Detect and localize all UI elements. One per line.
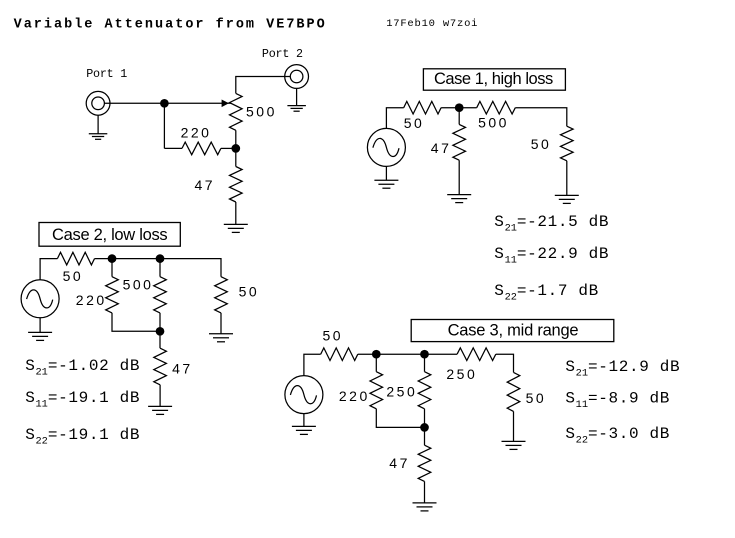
resistor 50 load (case 2) xyxy=(215,277,228,313)
wire node F to R47 xyxy=(159,331,161,348)
svg-text:50: 50 xyxy=(404,115,425,131)
resistor 220 (case 3) xyxy=(370,372,383,409)
ground (case 2 47) xyxy=(148,405,172,407)
resistor 220 (top-left) xyxy=(182,142,221,155)
wire node B to R47 xyxy=(235,148,237,166)
svg-text:220: 220 xyxy=(339,388,370,404)
svg-text:17Feb10 w7zoi: 17Feb10 w7zoi xyxy=(386,18,478,30)
source V3 (case 3) xyxy=(285,376,323,414)
wire R47 to ground (case 3) xyxy=(424,481,426,502)
svg-text:S11=-22.9 dB: S11=-22.9 dB xyxy=(494,245,609,267)
ground (case 3 source) xyxy=(292,425,316,427)
svg-text:50: 50 xyxy=(526,390,547,406)
wire load to ground xyxy=(566,161,568,196)
node F junction xyxy=(156,327,165,336)
ground (top-left 47) xyxy=(224,223,248,225)
resistor 220 (case 2) xyxy=(106,277,119,313)
wire R47 to ground xyxy=(235,202,237,224)
svg-text:50: 50 xyxy=(239,284,260,300)
svg-text:Port 2: Port 2 xyxy=(262,47,303,61)
svg-text:Case 3, mid range: Case 3, mid range xyxy=(448,322,579,340)
resistor 47 (case 3) xyxy=(418,445,431,481)
wire node C to R47 xyxy=(458,108,460,125)
case 1 label box xyxy=(423,69,565,90)
resistor 500 (case 2) xyxy=(154,277,167,313)
wire V2 bottom xyxy=(39,318,41,333)
wire to R220 xyxy=(164,147,182,149)
wire V1 top xyxy=(386,108,403,129)
wire node C to R500 xyxy=(459,107,477,109)
node C junction xyxy=(455,103,464,112)
wiper arrow wire xyxy=(164,102,230,104)
resistor 250 shunt (case 3) xyxy=(418,372,431,409)
svg-text:47: 47 xyxy=(431,140,452,156)
svg-text:S21=-1.02 dB: S21=-1.02 dB xyxy=(25,357,140,379)
wire V3 bottom xyxy=(303,414,305,427)
node H junction xyxy=(420,350,429,359)
resistor 50 series (case 1) xyxy=(404,101,441,114)
wire P1 to node A xyxy=(104,102,164,104)
svg-text:Variable Attenuator from VE7BP: Variable Attenuator from VE7BPO xyxy=(14,18,327,33)
ground (case 2 load) xyxy=(209,333,233,335)
node I junction xyxy=(420,423,429,432)
svg-text:50: 50 xyxy=(531,136,552,152)
source V1 (case 1) xyxy=(367,128,405,166)
wire V1 bottom xyxy=(385,166,387,180)
wire node G to node H xyxy=(376,353,424,355)
port P1 xyxy=(86,91,110,115)
resistor 47 (case 2) xyxy=(154,348,167,385)
wire R47 to ground (case 2) xyxy=(159,385,161,407)
source V2 (case 2) xyxy=(21,280,59,318)
wire V2 top xyxy=(40,259,57,280)
ground (case 1 source) xyxy=(374,179,398,181)
wire node A down xyxy=(163,103,165,148)
svg-text:47: 47 xyxy=(389,455,410,471)
resistor 500 (case 1) xyxy=(477,101,516,114)
svg-text:S11=-19.1 dB: S11=-19.1 dB xyxy=(25,389,140,411)
svg-text:Port 1: Port 1 xyxy=(86,67,127,81)
svg-text:47: 47 xyxy=(195,177,216,193)
wire R50 to node G xyxy=(358,353,377,355)
wire R250 to R50 load xyxy=(496,354,514,372)
case 2 label box xyxy=(39,223,180,247)
svg-text:S11=-8.9 dB: S11=-8.9 dB xyxy=(565,390,670,412)
ground under P1 xyxy=(89,133,108,135)
svg-text:Case 2, low loss: Case 2, low loss xyxy=(52,226,167,244)
svg-text:Case 1, high loss: Case 1, high loss xyxy=(434,70,553,88)
wire R47 to ground (case 1) xyxy=(458,160,460,194)
wire node E to R500 xyxy=(159,259,161,277)
svg-text:S21=-21.5 dB: S21=-21.5 dB xyxy=(494,213,609,235)
ground (case 1 load) xyxy=(555,194,579,196)
resistor 50 load (case 3) xyxy=(507,372,520,411)
wire node I to R47 xyxy=(424,427,426,445)
wire R50 to node D xyxy=(95,258,113,260)
wire R250 bottom to node I xyxy=(424,409,426,428)
node A junction xyxy=(160,99,169,108)
ground (case 2 source) xyxy=(28,331,52,333)
svg-text:50: 50 xyxy=(323,328,344,344)
svg-text:50: 50 xyxy=(63,268,84,284)
svg-text:500: 500 xyxy=(246,104,277,120)
wire node H to R250 shunt xyxy=(424,354,426,372)
node G junction xyxy=(372,350,381,359)
node B junction xyxy=(231,144,240,153)
wire node H to R250 xyxy=(425,353,458,355)
svg-text:500: 500 xyxy=(478,115,509,131)
wire R50 to node C xyxy=(441,107,459,109)
port P2 xyxy=(285,65,309,89)
svg-text:S22=-1.7 dB: S22=-1.7 dB xyxy=(494,282,599,304)
wire pot bottom to node B xyxy=(235,130,237,148)
wire R220 bottom to node F xyxy=(112,313,160,331)
wire node G to R220 xyxy=(375,354,377,372)
wire R220 bottom to node I xyxy=(376,409,424,428)
svg-text:220: 220 xyxy=(181,125,212,141)
node E junction xyxy=(156,254,165,263)
ground (case 3 load) xyxy=(502,440,526,442)
resistor 250 series (case 3) xyxy=(457,348,496,361)
svg-text:S21=-12.9 dB: S21=-12.9 dB xyxy=(565,358,680,380)
node D junction xyxy=(108,254,117,263)
resistor 47 (case 1) xyxy=(453,124,466,160)
wire R220 to node B xyxy=(221,147,236,149)
potentiometer 500 xyxy=(230,93,243,130)
resistor 47 (top-left) xyxy=(230,167,243,203)
wire R500 to R50 load xyxy=(515,108,567,127)
wire node D to R220 xyxy=(111,259,113,277)
wire pot top to P2 xyxy=(236,77,290,94)
wire R500 bottom to node F xyxy=(159,313,161,331)
svg-text:S22=-19.1 dB: S22=-19.1 dB xyxy=(25,426,140,448)
resistor 50 load (case 1) xyxy=(561,126,574,161)
svg-text:220: 220 xyxy=(76,292,107,308)
svg-text:500: 500 xyxy=(123,277,154,293)
ground under P2 xyxy=(287,105,306,107)
svg-text:S22=-3.0 dB: S22=-3.0 dB xyxy=(565,425,670,447)
wire node D to node E xyxy=(112,258,160,260)
svg-text:250: 250 xyxy=(386,383,417,399)
svg-text:47: 47 xyxy=(172,360,193,376)
case 3 label box xyxy=(411,320,614,342)
resistor 50 series (case 2) xyxy=(57,252,94,265)
wire load to ground (case 2) xyxy=(220,313,222,334)
wire load to ground (case 3) xyxy=(513,411,515,441)
wire node E to R50 load xyxy=(160,259,221,277)
wire V3 top xyxy=(304,354,321,375)
resistor 50 series (case 3) xyxy=(321,348,358,361)
svg-text:250: 250 xyxy=(446,366,477,382)
ground (case 1 47) xyxy=(447,194,471,196)
ground (case 3 47) xyxy=(413,502,437,504)
